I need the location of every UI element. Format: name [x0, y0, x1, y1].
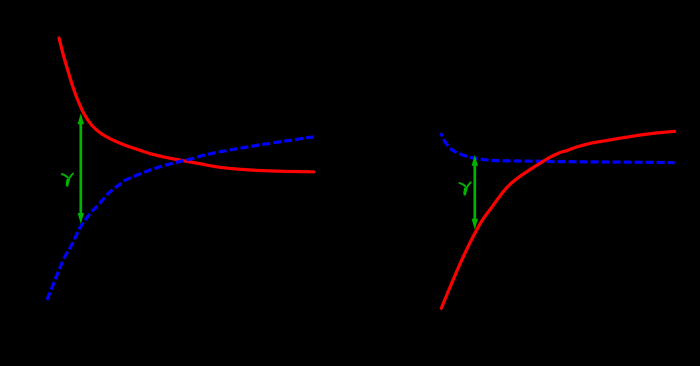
left plot: green double-headed arrow between curves — [78, 113, 84, 224]
right plot: red solid curve (increasing saturating) — [441, 131, 674, 308]
right plot: blue dashed curve (shallow decreasing) — [440, 133, 674, 163]
left plot: blue dashed curve (increasing saturating) — [47, 137, 314, 300]
right plot: green double-headed arrow between curves — [472, 155, 478, 230]
left plot: gamma label — [62, 174, 73, 186]
left plot: red solid curve (decreasing hyperbolic) — [59, 38, 314, 172]
right plot: gamma label — [460, 182, 471, 194]
